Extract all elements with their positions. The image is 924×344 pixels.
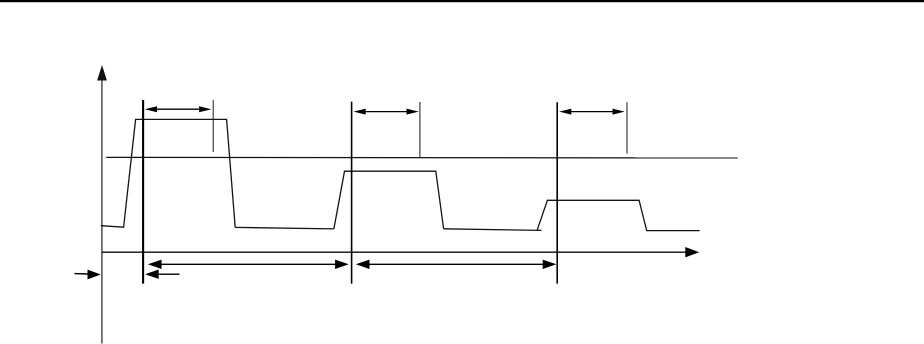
baseline between pulse 2 and pulse 3 — [444, 229, 542, 231]
waveform pulse 2 — [334, 171, 444, 229]
pulse width arrow 1 (double headed) — [145, 106, 212, 112]
waveform pulse 1 — [101, 119, 235, 227]
threshold level line — [106, 156, 738, 159]
period arrow 1 (double headed) — [148, 260, 349, 269]
marker line t3 start — [556, 102, 558, 283]
marker line t3 end (thin) — [626, 102, 628, 153]
marker line t2 end (thin) — [419, 102, 421, 158]
pulse width arrow 2 (double headed) — [354, 109, 419, 115]
marker line t2 start — [351, 102, 353, 284]
pulse width arrow 3 (double headed) — [559, 109, 625, 115]
page top rule — [0, 0, 924, 2]
period arrow 2 (double headed) — [356, 260, 557, 269]
waveform pulse 3 — [537, 200, 700, 231]
marker line t1 start (thick) — [142, 100, 144, 284]
y-axis — [97, 65, 107, 344]
offset arrow pointing right into y-axis — [74, 270, 100, 280]
delay arrow pointing left at t1 — [145, 270, 180, 279]
marker line t1 end (thin) — [212, 100, 214, 152]
x-axis — [102, 247, 699, 257]
baseline between pulse 1 and pulse 2 — [235, 227, 334, 229]
